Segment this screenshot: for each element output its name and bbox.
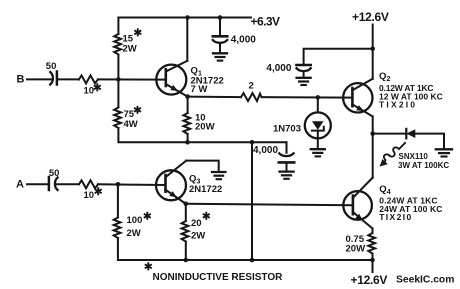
ground C4: [280, 170, 294, 172]
resistor R5 2: [241, 93, 262, 101]
svg-text:7 W: 7 W: [191, 84, 208, 95]
transistor Q1 2N1722: [156, 65, 186, 95]
node mid rail R4 junction: [185, 140, 190, 145]
svg-text:SeekIC.com: SeekIC.com: [396, 275, 454, 286]
svg-text:A: A: [16, 178, 24, 190]
wire +6.3V top rail: [118, 17, 251, 19]
svg-text:Q: Q: [189, 174, 196, 185]
capacitor C6 50 input A: [48, 177, 51, 190]
svg-text:2W: 2W: [123, 44, 137, 55]
node top rail / Q1 collector junction: [185, 15, 190, 20]
svg-text:+12.6V: +12.6V: [352, 10, 389, 24]
node bottom rail mid junction: [250, 258, 255, 263]
wire Q2 emitter down: [372, 117, 374, 134]
resistor R6 10* (A line): [79, 180, 98, 188]
svg-text:Q: Q: [379, 184, 386, 195]
transistor Q4 TIX210: [343, 191, 372, 220]
svg-text:50: 50: [49, 168, 60, 179]
transistor Q3 2N1722: [156, 170, 186, 200]
lamp SNX110 arrow symbol: [384, 143, 405, 161]
node top rail / C1 junction: [218, 15, 223, 20]
svg-text:+12.6V: +12.6V: [351, 273, 388, 287]
wire left divider vertical top: [117, 18, 119, 35]
wire B junction to Q1 base: [98, 78, 166, 80]
capacitor C1 4,000 (+6.3V): [219, 18, 221, 36]
capacitor C4 4,000 (mid): [286, 142, 288, 153]
transistor Q2 TIX210: [343, 83, 372, 112]
svg-text:2N1722: 2N1722: [189, 184, 222, 195]
svg-text:2W: 2W: [191, 231, 205, 242]
wire Q4 base line: [186, 204, 353, 206]
text noninductive resistor note: [145, 262, 152, 270]
svg-text:4,000: 4,000: [253, 145, 278, 156]
svg-text:20: 20: [191, 218, 202, 229]
svg-text:2: 2: [387, 76, 391, 83]
node B base junction: [116, 77, 121, 82]
wire Q2 emitter to diode and ground: [373, 133, 406, 135]
resistor R7 100* 2W: [117, 184, 119, 217]
wire +12.6V top stub: [372, 25, 374, 79]
svg-text:TIX2I0: TIX2I0: [379, 100, 417, 110]
svg-text:20W: 20W: [195, 122, 215, 133]
svg-text:10: 10: [84, 86, 95, 97]
svg-text:2: 2: [249, 81, 254, 92]
node mid rail vertical junction: [250, 140, 255, 145]
wire mid-to-bottom vertical: [251, 142, 253, 260]
wire divider bottom to mid rail: [118, 128, 286, 142]
svg-text:NONINDUCTIVE RESISTOR: NONINDUCTIVE RESISTOR: [153, 272, 284, 283]
capacitor C2 4,000 (+12.6V): [297, 64, 311, 67]
node Q3 emitter junction: [184, 202, 189, 207]
node Q2 emitter junction: [370, 131, 375, 136]
node Q1 emitter junction: [185, 94, 190, 99]
wire Q1 emitter to Q2 base: [188, 96, 241, 99]
svg-text:4,000: 4,000: [266, 63, 291, 74]
svg-text:4W: 4W: [124, 119, 138, 130]
resistor R1 15* 2W: [114, 34, 121, 55]
svg-text:TIX2I0: TIX2I0: [379, 212, 412, 222]
node bottom rail R8 junction: [184, 258, 189, 263]
node A input terminal: [27, 183, 48, 185]
svg-text:1N703: 1N703: [273, 124, 301, 135]
svg-text:3W AT 100KC: 3W AT 100KC: [398, 161, 449, 170]
wire A junction to Q3 base: [98, 183, 166, 186]
wire Q4 collector up: [372, 134, 374, 178]
node 1N703 junction: [316, 95, 321, 100]
wire divider middle: [117, 55, 119, 107]
ground CR2: [436, 148, 452, 150]
wire +12.6V bottom stub: [372, 260, 374, 272]
node +12.6V rail junction: [370, 46, 375, 51]
resistor R4 10 20W: [187, 97, 189, 113]
resistor R9 0.75 20W: [372, 229, 374, 234]
capacitor C5 50 input B: [50, 72, 53, 85]
diode CR2: [405, 129, 407, 138]
ground Q3 collector: [212, 171, 225, 173]
svg-text:100: 100: [127, 215, 143, 226]
wire bottom rail: [119, 259, 373, 261]
wire +12.6V rail to C2: [304, 49, 373, 64]
svg-text:B: B: [17, 74, 25, 86]
svg-text:20W: 20W: [346, 244, 366, 255]
diode CR1 1N703 zener: [317, 97, 319, 112]
ground C1: [213, 52, 227, 54]
svg-text:SNX110: SNX110: [399, 152, 429, 161]
node A base junction: [116, 182, 121, 187]
svg-text:4,000: 4,000: [231, 35, 256, 46]
node bottom rail right junction: [370, 258, 375, 263]
wire to Q2 base: [262, 96, 353, 99]
node B input terminal: [27, 78, 51, 80]
resistor R8 20* 2W: [185, 204, 187, 221]
resistor R2 75* 4W: [114, 108, 121, 129]
svg-text:+6.3V: +6.3V: [251, 14, 280, 28]
ground 1N703: [311, 148, 325, 150]
svg-text:Q: Q: [379, 71, 386, 82]
ground C2: [297, 77, 311, 79]
svg-text:2W: 2W: [127, 228, 141, 239]
wire Q3 collector to ground: [186, 161, 219, 171]
resistor R3 10* (B line): [79, 75, 98, 83]
svg-text:50: 50: [46, 61, 57, 72]
svg-text:10: 10: [84, 190, 95, 201]
wire Q1 collector to top rail: [186, 18, 188, 61]
